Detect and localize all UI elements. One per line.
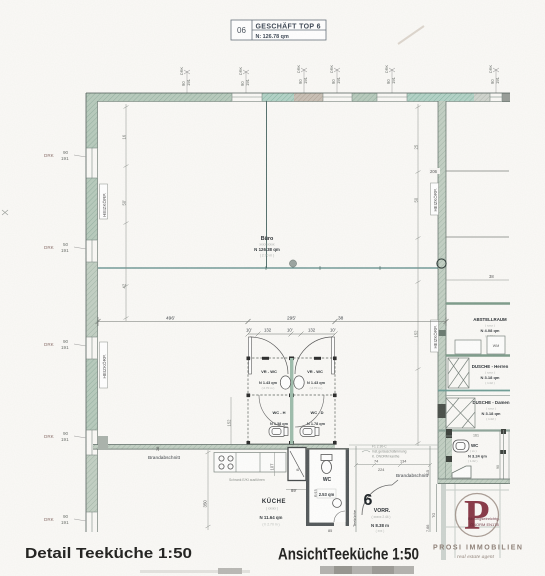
tick marks on partition xyxy=(266,266,380,270)
WC block posts xyxy=(247,357,337,445)
kitchen vertical dim 350 xyxy=(203,450,211,530)
wall below dusche herren xyxy=(438,390,510,392)
radiator label HEIZKOERPER no2 xyxy=(100,342,108,388)
VR-WC inner door arc left xyxy=(259,395,288,427)
left wall window 4 xyxy=(87,430,98,455)
label VR-WC left xyxy=(259,369,278,390)
radiator label HEIZKOERPER no3 xyxy=(431,183,439,215)
vorr door arc xyxy=(362,480,398,515)
top wall callout 6 xyxy=(489,65,500,93)
dim text 10 132 10 132 10 xyxy=(246,328,336,333)
secondary dimension line 10-132-10-132-10 xyxy=(246,332,338,337)
VR-WC sink right xyxy=(294,376,304,389)
room label Buero xyxy=(254,236,280,258)
abstellraum WM fixture xyxy=(487,336,505,354)
abstellraum top wall xyxy=(446,302,510,305)
dim 107 xyxy=(270,452,275,476)
title block xyxy=(231,20,326,40)
vorr dim line xyxy=(354,463,432,467)
teekueche WC room walls xyxy=(306,448,349,526)
dim 89 xyxy=(286,488,306,493)
room label KUECHE xyxy=(260,498,287,527)
partition lines right wc xyxy=(446,430,504,480)
left wall window 1 xyxy=(87,148,98,178)
toilet right WC room xyxy=(453,440,469,452)
wall below dusche damen xyxy=(438,429,510,431)
wall junction bump left xyxy=(98,436,108,450)
top wall callout 1 xyxy=(180,67,191,93)
logo circle xyxy=(456,494,499,537)
radiator label HEIZKOERPER no1 xyxy=(100,184,108,219)
top wall window 4 xyxy=(490,94,502,102)
top exterior wall xyxy=(86,93,510,102)
shower tray small right xyxy=(452,466,471,478)
WC block outline dashed xyxy=(248,358,335,444)
label TG 7.66 xyxy=(426,513,436,532)
room label ABSTELLRAUM xyxy=(473,317,507,338)
right wc pilaster wall xyxy=(446,430,452,479)
top wall window 1 xyxy=(232,94,262,102)
radiator label HEIZKOERPER no4 xyxy=(431,320,439,352)
room label DUSCHE Herren xyxy=(472,364,509,385)
node column circle on partition xyxy=(289,260,296,267)
fire wall left Brandabschnitt xyxy=(93,445,335,450)
kitchen counter outline xyxy=(214,453,286,473)
sink teekueche xyxy=(333,499,342,508)
dim line 38 right xyxy=(446,274,509,280)
toilet teekueche xyxy=(321,455,332,474)
left wall window 5 xyxy=(87,512,98,532)
wall below abstellraum xyxy=(446,354,510,357)
wall blocks right wc xyxy=(446,429,506,462)
main horizontal dimension line 496 xyxy=(96,317,449,326)
note text block fire door xyxy=(362,445,407,459)
shower tray Damen xyxy=(446,398,475,428)
bureau partition vertical wire xyxy=(266,101,268,268)
node circle at wall junction xyxy=(437,259,446,268)
shower tray Herren xyxy=(448,358,469,388)
right vertical dimension line xyxy=(416,104,421,446)
room label DUSCHE Damen xyxy=(472,400,509,421)
left callout DRK 90/191 no4 xyxy=(44,431,86,442)
label 2.53 qm xyxy=(317,489,336,498)
dim marks right wc xyxy=(473,434,500,470)
vorraum left boundary wire xyxy=(355,446,357,532)
top wall window 2 xyxy=(323,94,352,102)
fire wall thin continuation xyxy=(349,445,438,449)
toilet WC-H xyxy=(269,427,288,437)
WC block door arc right xyxy=(295,337,335,374)
kitchen counter dividers xyxy=(236,453,260,473)
cooktop burners xyxy=(219,456,233,469)
room label VORR xyxy=(371,508,391,533)
bottom strip marks right xyxy=(320,566,414,574)
bureau partition horizontal wire xyxy=(98,267,438,269)
VR-WC sink left xyxy=(280,376,290,389)
TG strip lines xyxy=(430,446,437,532)
left vertical dimension line xyxy=(124,104,129,321)
label VR-WC right xyxy=(307,369,326,390)
left wall window 3 xyxy=(87,337,98,359)
WC block bottom line xyxy=(248,443,335,445)
toilet WC-D xyxy=(300,427,319,437)
abstellraum shelf fixture xyxy=(455,340,481,354)
top wall callout 5 xyxy=(385,65,396,93)
teekueche WC interior xyxy=(309,450,345,522)
stray mark left margin xyxy=(2,210,8,215)
vorr dim texts xyxy=(374,460,430,477)
top wall callout 3 xyxy=(297,65,308,93)
fire wall right Brandabschnitt xyxy=(438,479,510,484)
faint plan lines behind logo xyxy=(441,430,509,560)
left exterior wall xyxy=(86,93,98,532)
WC block center wall xyxy=(290,358,293,444)
door vestibule to wc xyxy=(288,448,306,481)
vertical dim 152 near wc block xyxy=(227,397,232,444)
left callout DRK 90/191 no1 xyxy=(44,150,86,161)
logo overlay small text xyxy=(468,516,500,527)
top wall callout 2 xyxy=(239,67,250,93)
room label WC right xyxy=(468,443,487,463)
left wall window 2 xyxy=(87,240,98,262)
leader line y237 xyxy=(446,236,509,238)
left callout DRK 90/191 no3 xyxy=(44,339,86,350)
top wall window 3 xyxy=(377,94,407,102)
pencil smudge top right xyxy=(398,26,424,44)
left callout 90/191 no5 xyxy=(44,514,86,525)
right interior main wall vertical xyxy=(438,101,447,484)
teekueche bottom door arc xyxy=(334,511,345,522)
bottom strip marks left xyxy=(140,570,250,573)
leader line y171 xyxy=(446,170,509,172)
left callout DRK 50/191 no2 xyxy=(44,242,86,253)
VR-WC inner door arc right xyxy=(295,395,324,427)
top wall callout 4 xyxy=(330,65,341,93)
WC block door arc left xyxy=(249,337,289,374)
leader label 206 xyxy=(429,168,440,174)
